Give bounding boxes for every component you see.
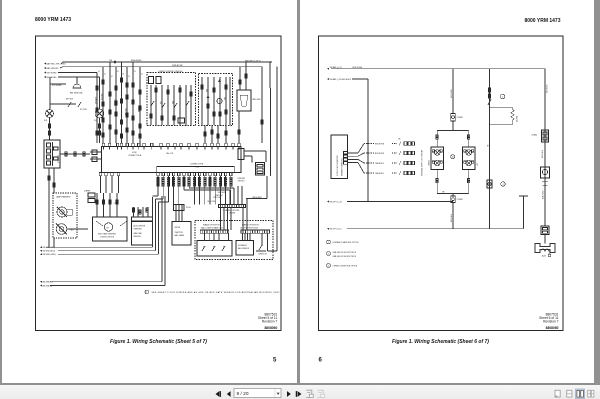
svg-text:CONTROL MOTOR: CONTROL MOTOR (100, 236, 115, 238)
svg-text:Revision 7: Revision 7 (543, 319, 559, 323)
svg-text:RED WHT: RED WHT (218, 192, 225, 194)
node bat feed arrow 1 (44, 62, 66, 65)
svg-text:CAN B BLU: CAN B BLU (375, 162, 385, 165)
toolbar page-number box (234, 388, 281, 397)
svg-text:GNB GRN OR GN 24V TRUCK: GNB GRN OR GN 24V TRUCK (333, 252, 357, 254)
note 1 with circled number (145, 290, 280, 294)
VCM connector A top pins (102, 143, 240, 146)
svg-text:ORN BLK: ORN BLK (114, 99, 116, 106)
svg-text:ENABLE OPTION FOR: ENABLE OPTION FOR (242, 224, 259, 227)
svg-text:1: 1 (328, 242, 329, 244)
svg-text:13: 13 (104, 73, 106, 75)
svg-text:CTRMR: CTRMR (457, 199, 464, 201)
svg-text:BUS COM: BUS COM (208, 201, 216, 203)
lamp assembly L2 (56, 224, 88, 235)
svg-text:1: 1 (146, 292, 147, 294)
wire PD1 to VCM with connectors (60, 152, 90, 156)
wire cluster risers to VCM connector A (97, 62, 140, 143)
svg-text:BAT GRN SPL: BAT GRN SPL (47, 67, 59, 70)
svg-text:PLUG: PLUG (186, 207, 191, 209)
riser wire labels (95, 93, 140, 115)
svg-text:FU1: FU1 (44, 120, 47, 122)
svg-text:CTRM: CTRM (114, 203, 119, 205)
svg-text:ALM: ALM (542, 254, 546, 257)
svg-text:M: M (107, 227, 109, 229)
svg-text:13: 13 (111, 76, 113, 78)
wire PD1 bottom drops (48, 168, 55, 193)
svg-text:SW GND (BLU): SW GND (BLU) (43, 251, 56, 253)
svg-text:13: 13 (122, 73, 124, 75)
net AS GND long wire 1 (40, 196, 162, 284)
svg-text:BAT FUSE 10A: BAT FUSE 10A (70, 92, 83, 95)
svg-text:ENABLE OPTION FOR: ENABLE OPTION FOR (203, 224, 220, 227)
converter right edge pin column (344, 152, 348, 165)
svg-text:BALL SENSOR: BALL SENSOR (238, 247, 250, 250)
wire harness routing below VCM (153, 186, 243, 205)
svg-text:2: 2 (502, 96, 503, 98)
wire lamp LP2 drop (90, 77, 100, 109)
right page revision block (539, 312, 559, 330)
svg-text:8000 YRM 1473: 8000 YRM 1473 (35, 17, 71, 23)
right page header text (524, 18, 560, 24)
steering motor connector risers (96, 193, 119, 217)
wire top right arrow SEE SHT (245, 61, 272, 64)
svg-text:BLU RED: BLU RED (101, 93, 103, 100)
svg-text:STEER COL: STEER COL (58, 154, 60, 163)
wire right edge return (268, 67, 278, 251)
wire bus A RED top (63, 59, 272, 64)
fuse CTRMR top (451, 114, 464, 122)
svg-text:13: 13 (134, 71, 136, 73)
svg-text:13: 13 (141, 73, 143, 75)
svg-text:8000 YRM 1473: 8000 YRM 1473 (524, 18, 560, 24)
enable option wall connector strip (200, 230, 229, 233)
svg-text:SENSOR): SENSOR) (134, 236, 142, 238)
lower-on switch (256, 233, 268, 255)
inline connectors right risers (204, 120, 263, 138)
svg-text:CTRMR: CTRMR (457, 117, 464, 119)
svg-text:8808060: 8808060 (546, 326, 559, 330)
svg-text:GRY BLU: GRY BLU (238, 181, 246, 183)
svg-text:(MAX. RAIL: (MAX. RAIL (134, 232, 143, 235)
riser top labels (98, 71, 143, 78)
alarm horn ALM1 (535, 235, 555, 258)
converter output rows fanned (348, 139, 415, 176)
svg-text:SW GND (GRN): SW GND (GRN) (43, 254, 56, 256)
svg-text:S1 DEL 12 VDC CONVERTER: S1 DEL 12 VDC CONVERTER (337, 154, 339, 176)
net arrow 2 right page (327, 78, 368, 81)
node label between contactors (451, 155, 455, 159)
svg-text:WHT BLU: WHT BLU (138, 105, 140, 112)
svg-text:CONNECTOR B: CONNECTOR B (190, 164, 204, 166)
svg-text:LOWER: LOWER (429, 159, 431, 166)
wire center drop to bottom bus (451, 203, 453, 229)
svg-text:SW BAT (-) 13 NEG B BLK: SW BAT (-) 13 NEG B BLK (330, 78, 352, 81)
left page header text 8000 YRM 1473 (35, 17, 71, 23)
svg-text:CROWN: CROWN (229, 212, 236, 214)
key switch KS1 (50, 99, 87, 112)
svg-text:TIE: TIE (398, 139, 400, 141)
svg-text:CONNECTOR A: CONNECTOR A (128, 154, 142, 157)
wire contactor tops to CTRMR (436, 121, 470, 147)
svg-text:GRN: GRN (172, 101, 174, 104)
wall switch box (197, 233, 232, 256)
wire right riser chassis (532, 69, 550, 226)
svg-text:SEE SHT (1 OF 7): SEE SHT (1 OF 7) (245, 61, 261, 63)
svg-text:BUS A RED: BUS A RED (131, 59, 142, 62)
svg-text:LWR WHT: LWR WHT (215, 195, 223, 197)
svg-text:BUS B RED: BUS B RED (451, 89, 453, 98)
wire branch x523 (519, 196, 528, 229)
right page schematic border frame (319, 36, 564, 331)
svg-text:9 / 20: 9 / 20 (237, 391, 249, 397)
connector stack below LP1 (48, 118, 50, 141)
svg-text:NEG B BLK: NEG B BLK (542, 150, 544, 158)
svg-text:NEG B BLK: NEG B BLK (451, 214, 453, 222)
svg-text:Revision 7: Revision 7 (262, 319, 278, 323)
left page number 5 (273, 358, 277, 364)
lamp LP1 (44, 110, 54, 123)
svg-text:(CHAS): (CHAS) (532, 134, 538, 137)
svg-text:HYDRAULIC: HYDRAULIC (238, 244, 248, 247)
fuse CTRMR lower (451, 194, 464, 203)
svg-text:TRACTION: TRACTION (175, 231, 184, 234)
svg-text:5: 5 (273, 358, 277, 364)
toolbar last-page button (296, 391, 301, 397)
svg-text:KEY SW: KEY SW (66, 99, 73, 101)
dashed box lamps harness (53, 193, 77, 238)
svg-text:GNB GRN OR GN 36V TRUCK: GNB GRN OR GN 36V TRUCK (333, 256, 357, 258)
svg-text:6: 6 (319, 358, 323, 364)
wire CTRMR to bus (451, 69, 453, 114)
svg-text:2 SPEED GOES THUR OPTION: 2 SPEED GOES THUR OPTION (333, 265, 358, 267)
svg-text:MULTI TASK STEERING: MULTI TASK STEERING (98, 233, 116, 236)
svg-text:50 OHM: 50 OHM (517, 115, 519, 122)
wire risers right of console boxes (205, 111, 239, 143)
node bat feed arrow 4 (44, 76, 90, 79)
svg-text:TIE: TIE (442, 191, 444, 193)
svg-text:BLK: BLK (71, 230, 75, 232)
svg-text:VCM: VCM (132, 152, 137, 154)
svg-text:SW OPT (+) 13: SW OPT (+) 13 (330, 201, 342, 203)
wire lamps to ground nets (49, 193, 54, 247)
right page number 6 (319, 358, 323, 364)
svg-text:STEERING: STEERING (134, 228, 143, 230)
svg-text:(PMA BATTS CAPACITY ): (PMA BATTS CAPACITY ) (341, 158, 344, 176)
dashed box console B (199, 74, 233, 126)
svg-text:BAT RED+ SPLC RED: BAT RED+ SPLC RED (47, 62, 67, 65)
SI delco converter box (331, 135, 348, 179)
svg-text:CAL LTD: CAL LTD (166, 152, 174, 155)
wire labels right below VCM (238, 178, 246, 183)
coolant level sensor CL1 (237, 62, 261, 111)
lamp assembly L1 (57, 207, 72, 217)
toolbar two-page icon selected (576, 389, 585, 399)
wire key feed left (50, 77, 66, 109)
VCM connector A inner tick row (104, 147, 240, 150)
svg-text:LWR A PNK: LWR A PNK (172, 64, 183, 67)
svg-text:BLK: BLK (160, 101, 162, 104)
svg-text:LIFT: LIFT (477, 163, 479, 166)
left page schematic border frame (36, 36, 282, 331)
console box B contents (201, 77, 230, 125)
svg-text:3: 3 (503, 184, 504, 186)
VCM connector B inner strip (157, 167, 235, 173)
svg-text:RED: RED (206, 89, 208, 92)
enable option all hydraulic label (241, 224, 260, 230)
VCM left side connector (90, 150, 102, 162)
wire label stubs on lower bus (453, 206, 524, 222)
net BUS B RED arrow right page (327, 66, 363, 70)
toolbar next-view icon (318, 390, 325, 397)
VCM connector B bottom pins (99, 173, 232, 176)
svg-text:LAMPS HARNESS: LAMPS HARNESS (56, 196, 71, 199)
horn HN1 (70, 77, 83, 95)
contactor K2 lift (463, 147, 479, 170)
svg-text:LWR GRN: LWR GRN (252, 99, 261, 101)
svg-text:LWR WHT: LWR WHT (238, 178, 246, 180)
left page revision block (258, 312, 278, 330)
wire lower long bus right page (327, 228, 524, 231)
right page note 3 (327, 264, 358, 268)
svg-text:2: 2 (328, 253, 329, 255)
net SW GND arrow 1 (40, 197, 153, 249)
svg-text:13: 13 (117, 71, 119, 73)
wire far right riser (262, 62, 270, 143)
dashed box lower-to/from-console (147, 71, 196, 126)
left page caption (110, 339, 207, 345)
jumper connector block (84, 191, 95, 203)
svg-text:Figure 1. Wiring Schematic (Sh: Figure 1. Wiring Schematic (Sheet 6 of 7… (392, 339, 489, 345)
svg-text:8808060: 8808060 (264, 326, 277, 330)
right page note 2 (327, 252, 357, 259)
svg-text:RED B PNK: RED B PNK (375, 143, 385, 145)
svg-text:NEG B BLK: NEG B BLK (547, 84, 549, 93)
toolbar previous-view icon (306, 390, 313, 397)
VCM right side box and harness (238, 149, 266, 176)
svg-text:3: 3 (328, 265, 329, 267)
svg-text:CAN B BLK: CAN B BLK (375, 172, 385, 175)
wire drops below VCM left group (101, 176, 119, 193)
svg-text:LWR A RED: LWR A RED (252, 196, 262, 199)
toolbar first-page button (216, 391, 221, 397)
svg-text:AUTO-CENTER: AUTO-CENTER (134, 225, 146, 228)
svg-text:KYS B RED: KYS B RED (52, 85, 62, 87)
svg-text:JUMPER: JUMPER (84, 191, 91, 193)
power distribution box PD1 (44, 140, 60, 168)
svg-text:BUS A RED: BUS A RED (47, 76, 58, 79)
console box A contents (149, 77, 193, 126)
connector stack below LP2 (98, 118, 100, 143)
hydraulic option connector strip (241, 230, 270, 233)
svg-text:HYDRAULIC FAN/LIGHT OPTION: HYDRAULIC FAN/LIGHT OPTION (333, 241, 360, 244)
svg-text:PNK: PNK (224, 97, 226, 100)
svg-text:LOWER TO/FROM CONSOLE: LOWER TO/FROM CONSOLE (158, 71, 183, 73)
svg-text:ST RUN: ST RUN (80, 109, 87, 111)
handle options connector strip (219, 205, 246, 215)
svg-text:BUS B PNK: BUS B PNK (375, 153, 385, 155)
svg-text:LOWER ON: LOWER ON (258, 254, 268, 256)
right page caption (392, 339, 489, 345)
dashed option box bottom right (195, 221, 273, 260)
net AS GND long wire 2 (40, 196, 165, 287)
contactor K1 lower (429, 147, 444, 170)
wire stubs below VCM connector B with inline connectors (157, 176, 232, 186)
toolbar two-page-continuous icon (588, 390, 594, 397)
svg-text:BALL SENSE: BALL SENSE (175, 234, 185, 237)
traction ball sensor connector (174, 205, 192, 211)
node bat feed arrow 3 (44, 71, 97, 74)
svg-text:GRN WHT: GRN WHT (95, 97, 97, 104)
wire label column below VCM (208, 192, 226, 203)
wire bus B RED horizontal (331, 68, 545, 70)
inline connectors on risers (96, 78, 141, 138)
hydraulic ball sensor box (236, 233, 254, 255)
svg-text:13: 13 (98, 71, 100, 73)
lamp LP2 (94, 109, 104, 122)
svg-text:13: 13 (128, 76, 130, 78)
net SW GND arrow 2 (40, 199, 156, 253)
wire contactor bottoms join (436, 170, 470, 194)
svg-text:SEE SHEET 8 FOR JUMPER AND AS: SEE SHEET 8 FOR JUMPER AND AS GND ON AUX… (152, 291, 281, 294)
switch and resistor branch x489 (487, 69, 519, 229)
node bat feed arrow 2 (44, 67, 63, 70)
wire riser x368 (367, 79, 369, 202)
steering control motor M1 (93, 217, 128, 241)
svg-text:SW OPT (-) 13: SW OPT (-) 13 (330, 229, 342, 231)
svg-text:TERMINAL STRIP 5 OF OPTIONS: TERMINAL STRIP 5 OF OPTIONS (421, 149, 424, 176)
net SW GND arrow 3 (40, 202, 159, 256)
svg-text:SW SW: SW SW (175, 227, 181, 229)
auto-center steering box (132, 207, 153, 245)
toolbar single-page icon (555, 390, 560, 397)
net optional arrow mid right page (327, 200, 453, 203)
toolbar continuous icon (567, 390, 572, 397)
svg-text:Figure 1. Wiring Schematic (Sh: Figure 1. Wiring Schematic (Sheet 5 of 7… (110, 339, 207, 345)
svg-text:KEY B RED: KEY B RED (47, 72, 58, 74)
toolbar previous-page button (227, 391, 231, 397)
svg-text:ALM B GRN: ALM B GRN (542, 191, 545, 199)
right page note 1 (327, 240, 360, 244)
wires handle strip to option strips (221, 199, 248, 230)
terminal strip vertical label (421, 149, 424, 176)
svg-text:YEL GRN: YEL GRN (125, 108, 127, 115)
svg-text:TIE: TIE (487, 145, 489, 147)
wire bus B top (63, 64, 262, 67)
VCM controller box U1 (102, 147, 242, 173)
enable option wall lower/raise label (201, 224, 224, 230)
wire LWR A RED to right riser (246, 88, 271, 199)
toolbar next-page button (287, 391, 291, 397)
traction ball sensor box (172, 211, 191, 246)
connector block right lower (541, 226, 549, 235)
